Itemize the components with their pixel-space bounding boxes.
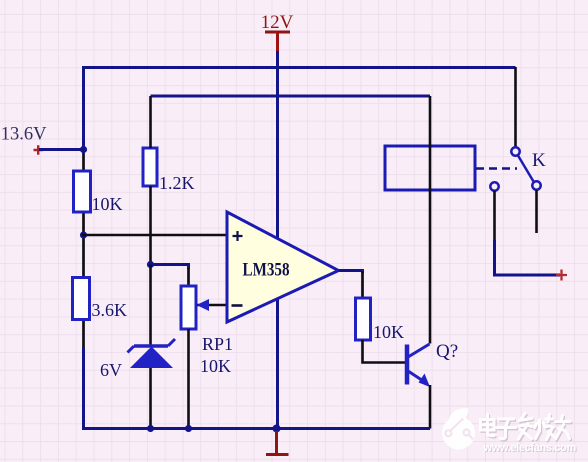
wire op-amp output bbox=[339, 271, 363, 274]
svg-text:LM358: LM358 bbox=[243, 260, 290, 281]
wire switch top bbox=[514, 67, 517, 147]
wire resistor to base bbox=[363, 340, 406, 363]
switch K bbox=[490, 147, 546, 190]
wire 13.6V to node bbox=[39, 148, 82, 151]
wire bottom rail bbox=[82, 427, 430, 430]
wiper arrowhead bbox=[197, 299, 210, 311]
svg-text:10K: 10K bbox=[92, 194, 123, 214]
svg-text:13.6V: 13.6V bbox=[1, 125, 47, 145]
resistor 1.2K bbox=[143, 148, 195, 193]
svg-text:6V: 6V bbox=[100, 360, 122, 380]
svg-text:www.elecfans.com: www.elecfans.com bbox=[483, 442, 577, 454]
port 13.6V bbox=[1, 125, 47, 155]
svg-text:RP1: RP1 bbox=[202, 334, 233, 354]
wire left contact to port bbox=[495, 240, 561, 275]
node junction noninverting bbox=[80, 231, 87, 238]
svg-text:12V: 12V bbox=[261, 12, 294, 33]
svg-text:K: K bbox=[532, 150, 546, 171]
svg-text:3.6K: 3.6K bbox=[92, 300, 128, 320]
node junction zener top bbox=[147, 261, 154, 268]
wire left vertical bbox=[82, 67, 85, 150]
wire top rail1 bbox=[82, 66, 516, 69]
wire zener branch upper bbox=[149, 265, 152, 347]
potentiometer RP1 bbox=[181, 286, 233, 376]
wire RP1 lower bbox=[187, 329, 190, 429]
svg-text:Q?: Q? bbox=[436, 341, 458, 362]
watermark logo bbox=[442, 408, 475, 449]
watermark url bbox=[483, 442, 578, 455]
node junction left top bbox=[80, 146, 87, 153]
wire rail2 bbox=[151, 95, 431, 98]
wire emitter down bbox=[429, 385, 432, 429]
zener diode 6V bbox=[100, 339, 175, 380]
svg-text:1.2K: 1.2K bbox=[159, 173, 195, 193]
wire to + input bbox=[82, 234, 227, 237]
watermark text bbox=[482, 415, 572, 441]
wire relay vertical bbox=[429, 96, 432, 344]
node junction bottom RP1 bbox=[185, 425, 192, 432]
power 12V symbol bbox=[261, 12, 294, 52]
node junction bottom center bbox=[273, 425, 281, 433]
wire 1.2K branch upper bbox=[149, 96, 152, 148]
wire node to RP1 bbox=[151, 265, 189, 270]
wire 1.2K branch lower bbox=[149, 186, 152, 265]
transistor Q? bbox=[407, 341, 458, 387]
wire RP1 wiper bbox=[197, 304, 227, 307]
port plus right bbox=[556, 270, 567, 281]
ground power bar bbox=[266, 431, 289, 455]
resistor 10K left bbox=[74, 171, 123, 214]
wire 12V vertical bbox=[276, 51, 279, 429]
svg-text:10K: 10K bbox=[373, 322, 404, 342]
svg-text:10K: 10K bbox=[200, 356, 231, 376]
resistor 3.6K bbox=[73, 278, 128, 321]
wire right contact down bbox=[535, 190, 538, 233]
resistor 10K base bbox=[356, 298, 405, 342]
wire zener branch lower bbox=[149, 368, 152, 429]
node junction bottom zener bbox=[147, 425, 154, 432]
wire left contact down bbox=[493, 191, 496, 241]
relay coil bbox=[385, 146, 475, 190]
op-amp U1 LM358 bbox=[227, 212, 339, 322]
dashed actuator line bbox=[476, 167, 517, 170]
